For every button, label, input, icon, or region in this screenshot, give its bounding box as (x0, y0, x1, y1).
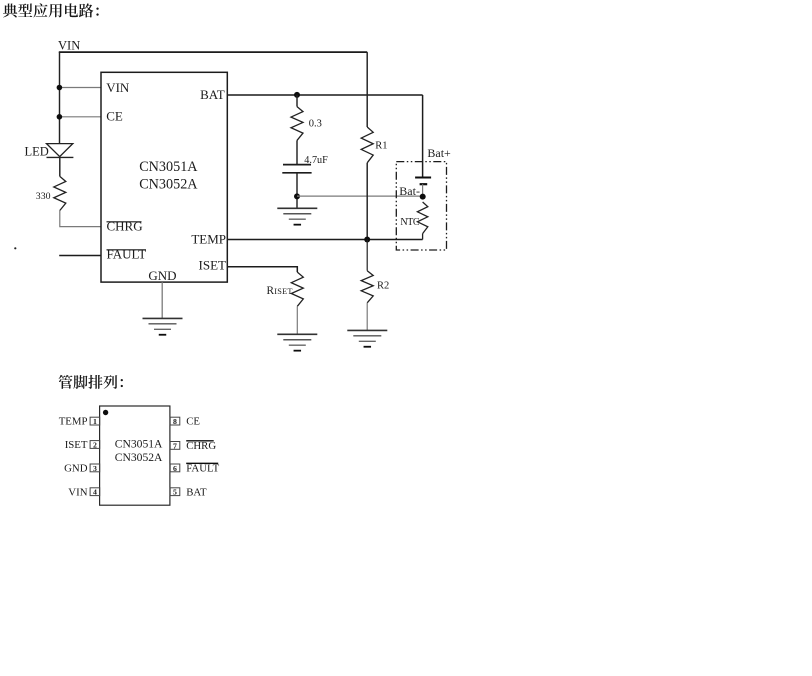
svg-text:TEMP: TEMP (59, 416, 88, 428)
resistor RISET (291, 272, 303, 306)
wire right rail VIN down to R1 (366, 52, 368, 127)
svg-text:8: 8 (173, 417, 177, 426)
pin 6 box (FAULT) (170, 464, 180, 473)
LED diode symbol (47, 144, 74, 158)
pin label CE (106, 109, 123, 124)
pin label BAT (200, 87, 225, 102)
resistor R1 (361, 127, 373, 163)
pin 5 box (BAT) (170, 488, 180, 497)
ground under capacitor (277, 208, 317, 224)
pin 8 box (CE) (170, 417, 180, 426)
label 0.3 (309, 119, 322, 130)
svg-text:BAT: BAT (200, 87, 225, 102)
node VIN net label (58, 38, 80, 52)
pin label CE (186, 416, 200, 428)
pin diagram IC body (100, 406, 170, 505)
svg-text:7: 7 (173, 441, 177, 450)
wire TEMP junction down to R2 (366, 240, 368, 271)
ground under GND pin (143, 318, 183, 334)
wire R1 to TEMP junction (366, 163, 368, 240)
junction Bat- dot (420, 194, 426, 200)
wire 0.3 to capacitor (296, 140, 298, 164)
svg-text:ISET: ISET (199, 257, 227, 272)
pin 2 box (ISET) (90, 440, 100, 449)
pin label CHRG (overline) (107, 219, 143, 234)
svg-text:Bat+: Bat+ (427, 146, 451, 160)
pin label TEMP (59, 416, 88, 428)
pin label ISET (199, 257, 227, 272)
label R1 (375, 141, 387, 152)
pin 1 box (TEMP) (90, 417, 100, 426)
svg-text:FAULT: FAULT (186, 463, 219, 475)
svg-text:CN3051A: CN3051A (115, 437, 163, 450)
svg-text:2: 2 (93, 440, 97, 449)
battery pack dashed box (396, 162, 446, 250)
resistor 330 (54, 176, 66, 210)
svg-text:330: 330 (36, 191, 51, 202)
wire capacitor to ground (296, 173, 298, 209)
op IC U1 CN3051A/CN3052A box (101, 72, 227, 282)
svg-text:LED: LED (25, 145, 49, 159)
svg-text:NTC: NTC (400, 217, 420, 228)
resistor 0.3 (291, 107, 303, 141)
label CN3052A (pin diagram) (115, 451, 163, 464)
pin 3 box (GND) (90, 464, 100, 473)
svg-text:0.3: 0.3 (309, 119, 322, 130)
wire FAULT stub (59, 255, 101, 257)
wire RISET to ground (296, 306, 298, 334)
svg-text:CHRG: CHRG (107, 219, 143, 234)
title: 典型应用电路 (typical application circuit) (3, 3, 99, 17)
svg-text:6: 6 (173, 464, 177, 473)
pin label CHRG (186, 440, 216, 452)
wire LED cathode to resistor (59, 157, 61, 176)
wire ISET to RISET (227, 267, 297, 272)
svg-text:4: 4 (93, 488, 97, 497)
ground under R2 (347, 330, 387, 346)
capacitor 4.7uF plates (282, 165, 311, 173)
pin label GND (64, 463, 88, 475)
wire BAT dot to 0.3 resistor (296, 95, 298, 107)
svg-text:5: 5 (173, 488, 177, 497)
label CN3052A (139, 177, 198, 193)
svg-text:CE: CE (106, 109, 123, 124)
junction CE stub dot (57, 114, 63, 120)
svg-text:VIN: VIN (106, 80, 130, 95)
thermistor NTC (417, 202, 427, 234)
pin 1 marker dot (103, 410, 108, 415)
wire GND pin to ground (grey) (161, 282, 163, 318)
wire R2 to ground (366, 303, 368, 331)
ground under RISET (277, 334, 317, 350)
svg-text:1: 1 (93, 417, 97, 426)
label 330 (36, 191, 51, 202)
label R2 (377, 280, 389, 291)
pin label VIN (68, 486, 87, 498)
resistor R2 (361, 271, 373, 303)
label 4.7uF (304, 155, 328, 166)
pin 7 box (CHRG) (170, 441, 180, 450)
label CN3051A (pin diagram) (115, 437, 163, 450)
label Bat+ (427, 146, 451, 160)
wire CE pin stub (60, 116, 102, 118)
svg-text:R1: R1 (375, 141, 387, 152)
svg-text:CN3052A: CN3052A (115, 451, 163, 464)
svg-text:GND: GND (64, 463, 88, 475)
pin label VIN (106, 80, 130, 95)
pin label ISET (65, 439, 88, 451)
label NTC (400, 217, 420, 228)
svg-text:CE: CE (186, 416, 200, 428)
junction VIN stub dot (57, 85, 63, 91)
svg-text:FAULT: FAULT (107, 247, 147, 262)
stray period mark (14, 247, 16, 249)
svg-text:CHRG: CHRG (186, 440, 216, 452)
wire BAT horizontal (227, 94, 422, 96)
pin label GND (148, 268, 176, 283)
label LED (25, 145, 49, 159)
svg-text:ISET: ISET (65, 439, 88, 451)
title: 管脚排列 (pin arrangement) (59, 375, 123, 389)
pin label FAULT (overline) (107, 247, 147, 262)
wire battery drop from BAT wire (422, 95, 424, 177)
wire 330 to CHRG pin (L shape) (60, 211, 101, 227)
svg-text:BAT: BAT (186, 486, 207, 498)
wire VIN rail top horizontal (59, 51, 367, 53)
pin label TEMP (191, 232, 226, 247)
label CN3051A (139, 159, 198, 175)
pin label FAULT (186, 463, 219, 475)
label RISET (267, 285, 293, 297)
svg-text:VIN: VIN (58, 38, 80, 52)
wire TEMP horizontal (227, 239, 422, 241)
svg-text:GND: GND (148, 268, 176, 283)
svg-text:CN3052A: CN3052A (139, 177, 198, 193)
wire VIN pin stub (60, 87, 102, 89)
svg-text:R2: R2 (377, 280, 389, 291)
svg-text:ISET: ISET (274, 287, 292, 296)
junction cap/Bat- dot (294, 193, 300, 199)
svg-text:R: R (267, 285, 275, 297)
wire cap node to Bat- (grey) (297, 195, 423, 197)
junction BAT dot at 0.3 resistor (294, 92, 300, 98)
pin 4 box (VIN) (90, 488, 100, 497)
wire NTC to TEMP wire (422, 234, 424, 240)
label Bat- (399, 184, 420, 198)
battery cell symbol (415, 178, 431, 197)
svg-text:3: 3 (93, 464, 97, 473)
svg-text:Bat-: Bat- (399, 184, 420, 198)
pin label BAT (186, 486, 207, 498)
wire left rail vertical VIN down to LED (59, 52, 61, 144)
svg-text:VIN: VIN (68, 486, 87, 498)
junction TEMP dot (364, 237, 370, 243)
svg-text:CN3051A: CN3051A (139, 159, 198, 175)
svg-text:TEMP: TEMP (191, 232, 226, 247)
